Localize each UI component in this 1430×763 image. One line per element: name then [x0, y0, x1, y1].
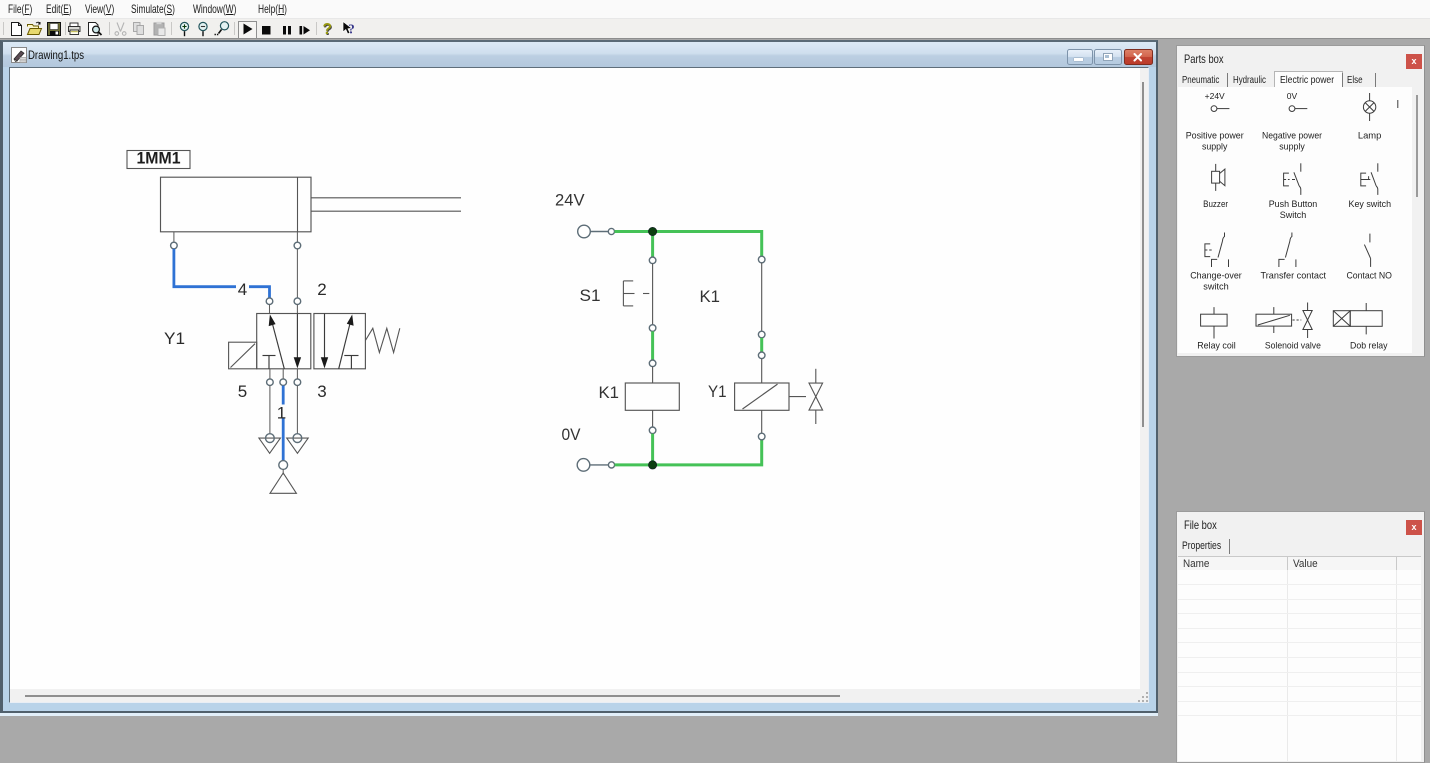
- vertical scroll thumb line: [1142, 82, 1144, 427]
- icon buzzer: [1212, 164, 1225, 191]
- cylinder left port stub: [173, 231, 175, 241]
- valve flow path 2 to 3 (arrow down): [294, 313, 301, 368]
- file box panel: [1176, 511, 1425, 763]
- svg-text:0V: 0V: [1287, 91, 1298, 101]
- wire Y1 to bottom node: [761, 410, 763, 433]
- icon relay coil: [1201, 307, 1228, 338]
- exhaust triangle right: [287, 438, 309, 453]
- drawing child window: [0, 40, 1158, 713]
- new document icon: [12, 23, 22, 36]
- exhaust node left: [266, 433, 275, 442]
- Y1 solenoid top node: [758, 352, 765, 359]
- wire port3 to exhaust: [296, 385, 298, 433]
- svg-text:Change-over: Change-over: [1190, 271, 1242, 282]
- svg-text:K1: K1: [700, 287, 721, 306]
- exhaust triangle left: [259, 438, 281, 453]
- svg-text:2: 2: [317, 280, 326, 299]
- return spring: [365, 328, 399, 352]
- cylinder left port node: [171, 242, 178, 249]
- cylinder right port wire to valve port 2: [296, 231, 298, 241]
- relay coil K1: [625, 383, 679, 410]
- svg-text:Dob relay: Dob relay: [1350, 341, 1388, 352]
- exhaust node right: [293, 433, 302, 442]
- tab strip: [1177, 71, 1422, 87]
- valve right box up arrow: [339, 314, 354, 368]
- valve Y1 left position box: [257, 313, 311, 368]
- S1 push button actuator: [623, 280, 649, 305]
- icon push button switch: [1284, 163, 1301, 195]
- stub port4 to valve: [269, 304, 271, 313]
- open folder icon: [28, 22, 42, 35]
- print icon: [69, 23, 81, 35]
- icon positive power supply: [1205, 91, 1230, 112]
- copy icon (disabled): [134, 23, 144, 35]
- svg-text:Y1: Y1: [164, 329, 185, 348]
- source stub: [282, 469, 284, 474]
- svg-text:4: 4: [238, 280, 247, 299]
- svg-text:Negative power: Negative power: [1262, 131, 1322, 142]
- label 4: [236, 280, 249, 299]
- cylinder right port node: [294, 242, 301, 249]
- light strip below window: [0, 713, 1158, 717]
- tube port2 (cylinder to valve): [296, 248, 298, 297]
- svg-text:Key switch: Key switch: [1349, 199, 1392, 210]
- label 1MM1: [127, 148, 190, 168]
- wire port5 to exhaust: [269, 385, 271, 433]
- cylinder 1MM1 body: [161, 177, 312, 232]
- svg-text:Push Button: Push Button: [1269, 199, 1318, 210]
- valve port 5 node: [267, 378, 274, 385]
- play button (framed): [238, 21, 257, 39]
- resize grip: [1138, 692, 1150, 703]
- green wire contact to Y1: [760, 337, 763, 351]
- cylinder piston: [297, 177, 299, 232]
- icon lamp: [1363, 93, 1375, 121]
- table body: [1178, 570, 1421, 761]
- zoom out icon: [199, 22, 207, 36]
- svg-text:Transfer contact: Transfer contact: [1261, 271, 1327, 282]
- print preview icon: [89, 23, 102, 36]
- svg-text:3: 3: [317, 382, 326, 401]
- icon change-over switch: [1205, 233, 1229, 268]
- solenoid pilot box: [229, 342, 257, 369]
- valve Y1 right position box: [314, 313, 366, 368]
- valve right box blocked port: [344, 355, 358, 368]
- valve port 3 node: [294, 378, 301, 385]
- K1 contact (closed): [761, 262, 763, 330]
- svg-text:switch: switch: [1203, 282, 1229, 293]
- wire coil to bottom node: [652, 410, 654, 427]
- valve blocked port 5: [263, 355, 276, 368]
- svg-text:0V: 0V: [562, 425, 582, 444]
- K1 coil bottom node: [649, 427, 656, 434]
- compressed air source triangle: [270, 473, 296, 493]
- svg-text:5: 5: [238, 382, 247, 401]
- parts box panel: [1176, 45, 1425, 357]
- icon dob relay: [1333, 303, 1382, 334]
- pneumatic valve mini symbol: [809, 368, 823, 423]
- svg-text:Y1: Y1: [708, 382, 727, 401]
- S1 top node: [649, 257, 656, 264]
- paste icon (disabled): [154, 22, 165, 36]
- zoom in icon: [180, 22, 188, 36]
- link to valve symbol: [789, 395, 806, 397]
- icon key switch: [1361, 163, 1378, 195]
- zoom scale icon: [215, 22, 229, 35]
- icon contact NO: [1364, 234, 1370, 267]
- cylinder piston rod: [311, 197, 461, 210]
- K1 contact bottom node: [758, 331, 765, 338]
- positive supply terminal 24V: [578, 225, 615, 238]
- blue tube port1 to source: [282, 385, 285, 460]
- svg-text:Solenoid valve: Solenoid valve: [1265, 341, 1321, 352]
- icon negative power supply: [1287, 91, 1308, 112]
- stray next-column icon edge: [1397, 100, 1399, 108]
- svg-text:+24V: +24V: [1205, 91, 1225, 101]
- valve port 2 node: [294, 297, 301, 304]
- stubs valve bottom to port nodes: [270, 368, 298, 378]
- Y1 bottom node: [758, 433, 765, 440]
- valve port 4 node: [266, 297, 273, 304]
- save floppy icon: [48, 23, 61, 36]
- K1 coil top node: [649, 360, 656, 367]
- svg-text:Buzzer: Buzzer: [1203, 199, 1228, 210]
- valve flow path 1 to 4 (arrow up): [269, 314, 285, 368]
- context help icon: [341, 21, 358, 37]
- properties tab: [1177, 537, 1422, 554]
- green wire 0V rail: [615, 439, 762, 464]
- negative supply terminal 0V: [577, 458, 614, 471]
- S1 contact (closed): [652, 263, 654, 324]
- svg-text:K1: K1: [599, 383, 620, 402]
- svg-text:supply: supply: [1279, 142, 1305, 153]
- source node: [279, 460, 288, 469]
- icon solenoid valve: [1256, 303, 1312, 339]
- svg-text:Switch: Switch: [1280, 210, 1307, 221]
- svg-text:Positive power: Positive power: [1186, 131, 1244, 142]
- svg-text:supply: supply: [1202, 142, 1228, 153]
- wire node to coil: [652, 366, 654, 382]
- label 1: [277, 403, 288, 422]
- green wire 24V rail: [615, 231, 762, 256]
- help icon: [323, 21, 337, 38]
- svg-text:24V: 24V: [555, 190, 585, 209]
- table header: [1178, 556, 1421, 571]
- cut scissors icon (disabled): [115, 23, 126, 36]
- green wire junction drop to S1: [651, 231, 654, 257]
- S1 bottom node: [649, 324, 656, 331]
- wire node to Y1: [761, 358, 763, 382]
- svg-text:?: ?: [348, 22, 355, 37]
- icon transfer contact: [1279, 233, 1296, 268]
- K1 contact top node: [758, 256, 765, 263]
- svg-text:Contact NO: Contact NO: [1346, 271, 1392, 282]
- svg-text:1: 1: [277, 403, 286, 422]
- solenoid Y1 box: [735, 383, 789, 410]
- title icon: [11, 47, 27, 63]
- valve right box down arrow: [321, 313, 328, 368]
- junction node 24V rail: [649, 227, 657, 235]
- junction node 0V rail: [649, 460, 657, 468]
- svg-text:S1: S1: [580, 286, 601, 305]
- stub port2 to valve: [296, 304, 298, 313]
- valve port 1 node: [280, 378, 287, 385]
- content: [1178, 87, 1412, 353]
- green wire coil to 0V rail: [651, 433, 654, 464]
- green wire S1 to K1 coil: [651, 331, 654, 360]
- blue tube cylinder to valve port 4: [174, 248, 270, 297]
- parts scrollbar: [1412, 87, 1424, 353]
- horizontal scroll thumb line: [25, 695, 840, 697]
- svg-text:1MM1: 1MM1: [137, 148, 181, 167]
- svg-text:Relay coil: Relay coil: [1197, 341, 1236, 352]
- svg-text:Lamp: Lamp: [1358, 131, 1382, 142]
